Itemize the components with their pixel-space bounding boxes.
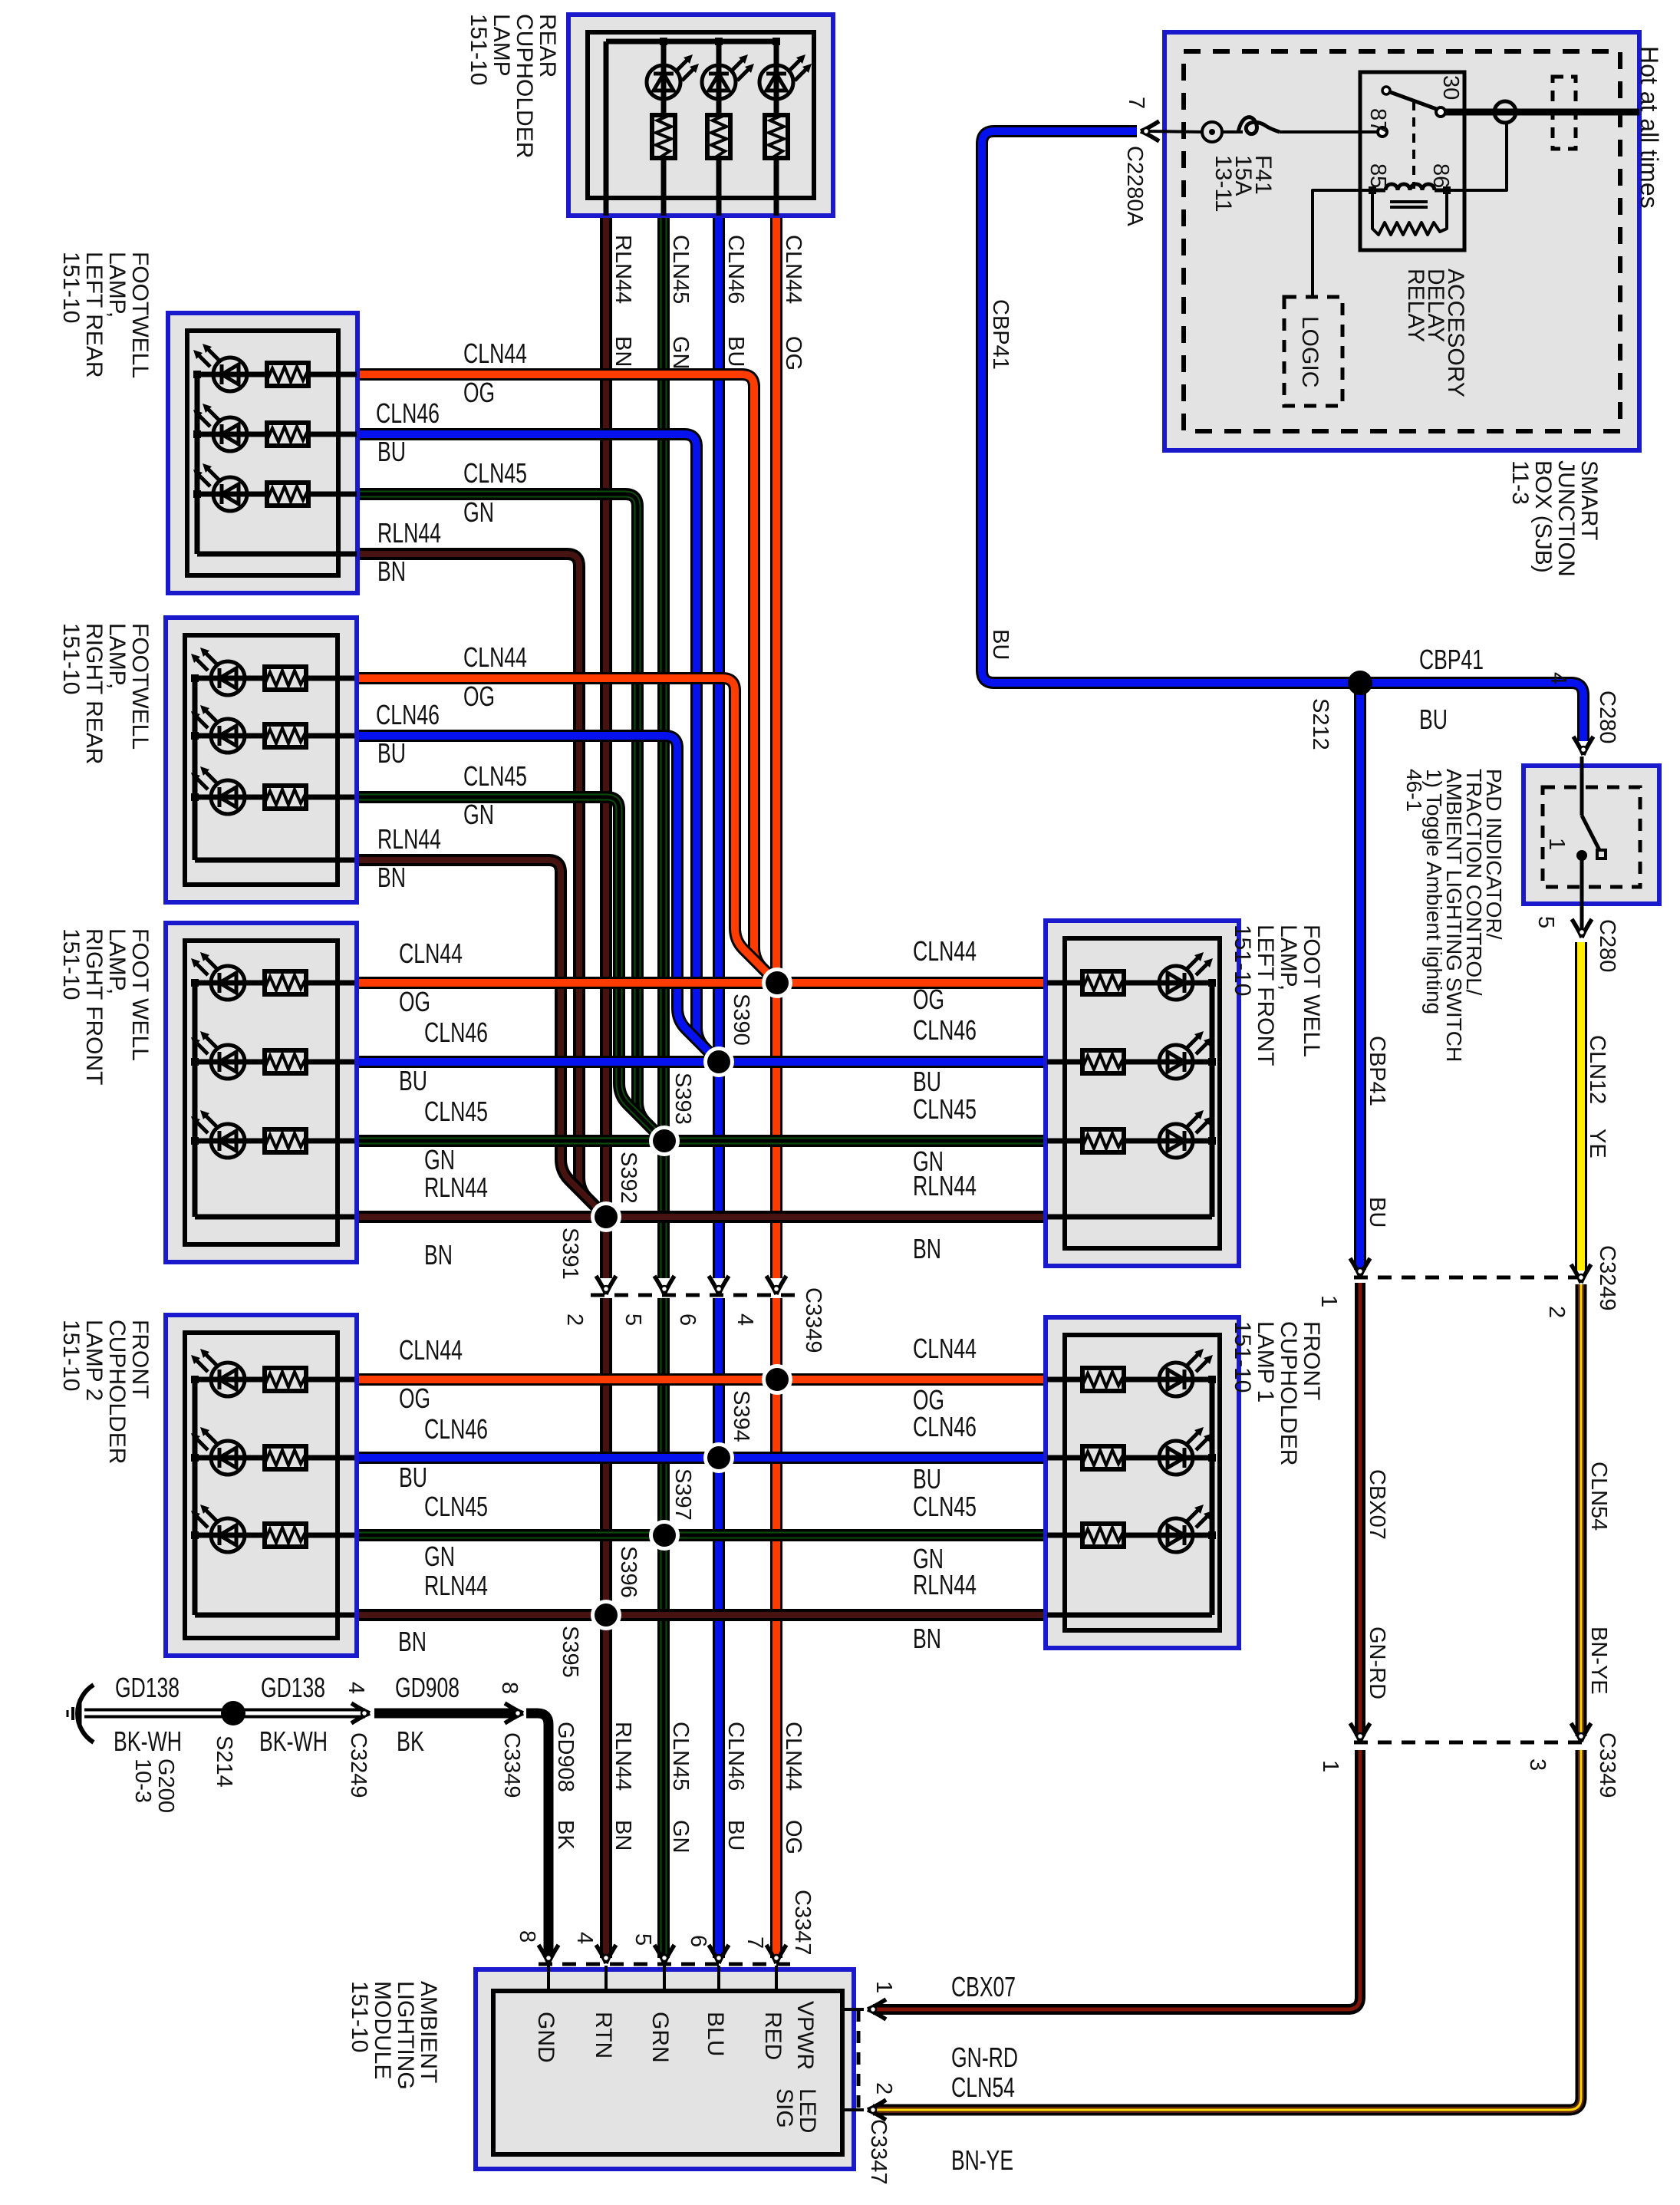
footwell right rear internal LED circuits <box>193 678 198 860</box>
wire C2280A to fuse F41 <box>1146 131 1202 132</box>
svg-text:CLN44: CLN44 <box>781 1722 805 1791</box>
svg-text:S390: S390 <box>729 994 753 1046</box>
svg-text:CLN46: CLN46 <box>376 699 440 730</box>
wire CLN45 GN from footwell lamp right rear to S392 <box>354 797 664 1141</box>
svg-text:CBX07: CBX07 <box>1365 1469 1389 1540</box>
svg-text:RLN44: RLN44 <box>913 1170 977 1201</box>
svg-text:CBP41: CBP41 <box>1419 644 1484 675</box>
svg-text:GN-RD: GN-RD <box>1365 1627 1389 1699</box>
relay actuating link (dashed) <box>1412 101 1415 189</box>
lamp FRONT CUPHOLDER LAMP 2 151-10 housing <box>166 1315 357 1656</box>
svg-text:2: 2 <box>562 1313 587 1326</box>
svg-text:BU: BU <box>399 1462 427 1493</box>
svg-text:GD138: GD138 <box>261 1672 325 1703</box>
svg-text:BU: BU <box>1419 704 1448 735</box>
connector C3347 arrow at x=715 <box>539 1945 558 1963</box>
svg-text:S212: S212 <box>1308 698 1332 750</box>
svg-text:RLN44: RLN44 <box>913 1569 977 1600</box>
svg-text:OG: OG <box>399 986 430 1017</box>
SJB feed tap circle <box>1494 101 1516 123</box>
svg-text:CLN46: CLN46 <box>376 397 440 429</box>
svg-text:5: 5 <box>631 1933 655 1946</box>
svg-text:OG: OG <box>781 1820 805 1854</box>
svg-text:CLN45: CLN45 <box>463 760 527 792</box>
svg-text:Hot at all times: Hot at all times <box>1636 46 1663 209</box>
svg-text:LAMP 2: LAMP 2 <box>81 1320 107 1401</box>
svg-text:C3349: C3349 <box>1595 1732 1619 1798</box>
svg-text:S392: S392 <box>616 1152 641 1204</box>
svg-text:CUPHOLDER: CUPHOLDER <box>1276 1321 1301 1465</box>
svg-text:151-10: 151-10 <box>1230 1321 1255 1393</box>
svg-text:BN: BN <box>377 862 406 893</box>
wire CLN46 BU main vertical (rear cupholder to C3349) <box>713 213 725 1278</box>
connector C3349 arrow on CBX07 <box>1350 1723 1370 1742</box>
svg-text:GN: GN <box>668 336 693 370</box>
svg-text:CLN44: CLN44 <box>463 338 527 369</box>
svg-text:S396: S396 <box>616 1546 641 1598</box>
LOGIC box <box>1284 297 1342 406</box>
svg-text:LAMP,: LAMP, <box>104 928 130 994</box>
fuse F41 15A element <box>1238 117 1280 134</box>
svg-text:LEFT FRONT: LEFT FRONT <box>1253 925 1278 1066</box>
svg-text:S395: S395 <box>558 1626 582 1678</box>
wire CLN44 OG row between front cupholder lamps <box>354 1373 1049 1386</box>
rear cupholder lamp internal LED circuits <box>606 39 776 44</box>
connector C3347 dashed row at module <box>539 1963 790 1966</box>
svg-text:85: 85 <box>1365 163 1390 188</box>
svg-text:JUNCTION: JUNCTION <box>1553 460 1579 577</box>
svg-text:BN: BN <box>611 336 635 367</box>
svg-text:151-10: 151-10 <box>466 14 491 85</box>
connector C3349 dashed row (middle) <box>591 1294 796 1297</box>
svg-text:BK: BK <box>397 1725 424 1757</box>
svg-text:GN: GN <box>463 799 494 830</box>
wire CLN45 GN row between front cupholder lamps <box>354 1529 1049 1541</box>
svg-text:4: 4 <box>344 1682 368 1694</box>
svg-text:GD908: GD908 <box>553 1722 578 1792</box>
svg-text:CLN46: CLN46 <box>424 1017 488 1048</box>
lamp REAR CUPHOLDER LAMP 151-10 housing <box>568 15 833 216</box>
svg-text:C3349: C3349 <box>499 1732 524 1798</box>
svg-text:SIG: SIG <box>772 2088 797 2128</box>
svg-text:CLN45: CLN45 <box>668 235 693 304</box>
svg-text:CLN44: CLN44 <box>463 641 527 673</box>
svg-text:4: 4 <box>572 1932 597 1944</box>
svg-text:87: 87 <box>1365 108 1390 133</box>
connector C3347 arrow at x=866 <box>654 1945 674 1963</box>
svg-text:FOOTWELL: FOOTWELL <box>127 623 153 750</box>
svg-text:RELAY: RELAY <box>1403 269 1428 342</box>
svg-text:2: 2 <box>871 2082 896 2095</box>
svg-text:CLN45: CLN45 <box>463 457 527 489</box>
svg-text:BN: BN <box>611 1820 635 1851</box>
svg-text:C280: C280 <box>1595 691 1619 743</box>
svg-text:LAMP,: LAMP, <box>1276 925 1301 990</box>
svg-text:7: 7 <box>1124 97 1148 109</box>
svg-text:G200: G200 <box>153 1758 178 1813</box>
svg-text:FRONT: FRONT <box>127 1320 153 1399</box>
svg-text:S394: S394 <box>729 1390 753 1442</box>
svg-text:BK: BK <box>553 1820 578 1850</box>
connector C3349 arrow on CLN54 <box>1571 1723 1591 1742</box>
wire CLN44 OG row between foot well front lamps <box>354 977 1049 989</box>
wire CLN46 BU from footwell lamp left rear to S393 <box>354 434 719 1062</box>
svg-text:SMART: SMART <box>1576 460 1602 540</box>
svg-text:LOGIC: LOGIC <box>1297 316 1323 387</box>
svg-text:GN: GN <box>463 496 494 528</box>
svg-text:BU: BU <box>723 1820 748 1851</box>
relay coil suppression resistor <box>1372 190 1447 235</box>
connector C280 pin 4 arrow <box>1573 737 1593 755</box>
wire relay pin 85 to LOGIC <box>1313 190 1372 297</box>
wire GD138 BK-WH from S214 to C3249 pin 4 <box>233 1709 365 1719</box>
wire CLN46 BU main vertical (C3349 to ambient lighting module) <box>713 1298 725 1958</box>
svg-text:LAMP,: LAMP, <box>104 623 130 689</box>
svg-text:CLN46: CLN46 <box>424 1413 488 1445</box>
svg-text:BU: BU <box>399 1065 427 1096</box>
junction S394 <box>762 1364 792 1395</box>
svg-text:CLN54: CLN54 <box>951 2072 1015 2103</box>
connector C3349 arrow on ground run <box>505 1703 523 1723</box>
wire CLN44 OG main vertical (rear cupholder to C3349) <box>770 213 782 1278</box>
junction S397 <box>703 1442 734 1473</box>
svg-text:BN: BN <box>424 1239 453 1271</box>
svg-text:CLN45: CLN45 <box>668 1722 693 1791</box>
svg-text:151-10: 151-10 <box>58 252 84 323</box>
svg-text:151-10: 151-10 <box>58 928 84 1000</box>
connector C2280A pin 7 arrow <box>1141 121 1159 141</box>
svg-text:AMBIENT: AMBIENT <box>416 1981 441 2083</box>
module VPWR pin stub <box>842 2008 864 2011</box>
svg-text:RED: RED <box>760 2012 786 2060</box>
svg-text:CLN44: CLN44 <box>399 1334 463 1366</box>
svg-text:GN: GN <box>668 1820 693 1854</box>
svg-text:86: 86 <box>1428 163 1453 188</box>
wire RLN44 BN main vertical (rear cupholder to C3349) <box>600 213 612 1278</box>
box PAD INDICATOR / TRACTION CONTROL / AMBIENT LIGHTING SWITCH 46-1 <box>1524 766 1659 904</box>
svg-text:CLN54: CLN54 <box>1586 1462 1611 1531</box>
svg-text:C3349: C3349 <box>801 1287 825 1353</box>
ambient lighting toggle switch pole and blade <box>1580 756 1584 816</box>
junction S392 <box>649 1126 680 1156</box>
svg-text:3: 3 <box>1525 1758 1550 1771</box>
svg-text:FOOTWELL: FOOTWELL <box>127 252 153 378</box>
relay pin 30 contact <box>1436 107 1445 117</box>
svg-text:C3249: C3249 <box>1595 1245 1619 1310</box>
svg-text:GRN: GRN <box>647 2012 673 2063</box>
svg-text:1: 1 <box>1318 1760 1342 1772</box>
wire CLN45 GN from footwell lamp left rear to S392 <box>354 494 664 1141</box>
svg-text:BK-WH: BK-WH <box>259 1725 328 1757</box>
foot well right front internal LED circuits <box>193 983 198 1217</box>
front cupholder lamp 1 internal LED circuits <box>1210 1379 1215 1615</box>
connector C3347 dashed link (right side pins 1-2) <box>857 2009 861 2110</box>
wire CLN44 OG main vertical (C3349 to ambient lighting module) <box>770 1298 782 1958</box>
svg-text:BU: BU <box>913 1066 941 1097</box>
svg-text:1: 1 <box>1316 1295 1341 1307</box>
svg-text:OG: OG <box>399 1383 430 1414</box>
lamp FOOTWELL LAMP LEFT REAR 151-10 housing <box>168 313 357 593</box>
connector C3249 arrow on ground run <box>351 1703 370 1723</box>
svg-text:C2280A: C2280A <box>1122 146 1147 226</box>
wire CLN44 OG from footwell lamp left rear to S390 <box>354 374 777 983</box>
svg-text:BU: BU <box>988 629 1013 660</box>
svg-text:BU: BU <box>377 737 406 769</box>
front cupholder lamp 2 internal LED circuits <box>193 1379 198 1615</box>
svg-text:C3249: C3249 <box>346 1732 371 1798</box>
svg-text:BU: BU <box>377 436 406 467</box>
wire CLN12 YE from switch C280 pin 5 to C3249 <box>1575 942 1587 1271</box>
wire GD908 BK from C3349 to ambient lighting module GND <box>526 1713 548 1958</box>
svg-text:RLN44: RLN44 <box>377 823 441 855</box>
svg-text:FOOT WELL: FOOT WELL <box>1299 925 1324 1057</box>
junction S214 <box>221 1701 245 1725</box>
wire CLN54 BN-YE from C3249 down through C3349 to ambient lighting module LED SIG <box>1576 1284 1587 1736</box>
svg-text:CLN46: CLN46 <box>723 235 748 304</box>
wire CLN46 BU row between foot well front lamps <box>354 1056 1049 1068</box>
connector C3349 dashed row (right side) <box>1354 1741 1586 1745</box>
svg-text:S214: S214 <box>212 1735 236 1788</box>
svg-text:CLN44: CLN44 <box>781 235 805 304</box>
svg-text:5: 5 <box>1533 916 1558 928</box>
svg-text:CBP41: CBP41 <box>988 299 1013 370</box>
wire CLN44 OG from footwell lamp right rear to S390 <box>354 678 777 983</box>
connector C3347 arrow at LED SIG <box>868 2100 886 2120</box>
relay switch blade 30-87 <box>1390 92 1438 110</box>
wire fuse F41 to relay pin 87 <box>1280 130 1378 133</box>
svg-text:CBP41: CBP41 <box>1365 1036 1389 1106</box>
svg-text:CUPHOLDER: CUPHOLDER <box>512 14 537 158</box>
wire relay pin 86 to feed tap <box>1447 124 1507 190</box>
wire battery feed inside SJB (hot at all times) <box>1441 109 1639 116</box>
svg-text:OG: OG <box>781 336 805 371</box>
svg-text:GND: GND <box>533 2012 558 2063</box>
svg-text:C280: C280 <box>1595 919 1619 972</box>
svg-text:5: 5 <box>621 1313 645 1326</box>
svg-text:CLN46: CLN46 <box>913 1014 977 1046</box>
svg-text:RIGHT REAR: RIGHT REAR <box>81 623 107 764</box>
lamp FOOT WELL LAMP RIGHT FRONT 151-10 housing <box>166 923 357 1262</box>
svg-text:FOOT WELL: FOOT WELL <box>127 928 153 1061</box>
svg-text:46-1: 46-1 <box>1402 769 1426 812</box>
svg-text:CLN44: CLN44 <box>399 938 463 969</box>
svg-text:MODULE: MODULE <box>370 1981 395 2079</box>
svg-text:S397: S397 <box>670 1468 695 1521</box>
svg-text:LAMP 1: LAMP 1 <box>1253 1321 1278 1402</box>
svg-text:BOX (SJB): BOX (SJB) <box>1530 460 1556 573</box>
junction S396 <box>649 1520 680 1551</box>
svg-text:RLN44: RLN44 <box>424 1172 488 1203</box>
svg-text:BN: BN <box>398 1626 427 1657</box>
svg-text:LIGHTING: LIGHTING <box>393 1981 418 2090</box>
connector C3249 dashed row (right side) <box>1354 1276 1586 1280</box>
wire RLN44 BN from footwell lamp right rear to S391 <box>354 860 606 1217</box>
connector C3249 arrow on CBP41 <box>1350 1258 1370 1277</box>
svg-text:BN-YE: BN-YE <box>951 2144 1013 2176</box>
svg-text:CBX07: CBX07 <box>951 1971 1016 2002</box>
module LED SIG pin stub <box>842 2108 864 2111</box>
svg-text:RIGHT FRONT: RIGHT FRONT <box>81 928 107 1085</box>
connector C3349 arrow at x=866 <box>654 1276 674 1294</box>
svg-text:BU: BU <box>913 1463 941 1495</box>
wire CBP41 BU branch from S212 down to C3249 <box>1354 683 1366 1270</box>
wire CBX07 GN-RD from C3249 down through C3349 to ambient lighting module VPWR <box>1355 1283 1365 1736</box>
svg-text:2: 2 <box>1544 1306 1569 1318</box>
svg-text:BN: BN <box>913 1623 941 1654</box>
svg-text:S393: S393 <box>670 1073 695 1125</box>
svg-text:FRONT: FRONT <box>1299 1321 1324 1400</box>
svg-text:BU: BU <box>1365 1197 1389 1228</box>
connector C3349 arrow at x=937 <box>709 1276 729 1294</box>
box AMBIENT LIGHTING MODULE 151-10 <box>476 1969 854 2169</box>
svg-text:CLN46: CLN46 <box>913 1411 977 1442</box>
svg-text:RLN44: RLN44 <box>611 235 635 304</box>
svg-text:GN: GN <box>424 1144 455 1175</box>
svg-text:RLN44: RLN44 <box>377 517 441 549</box>
lamp FRONT CUPHOLDER LAMP 1 151-10 housing <box>1046 1317 1239 1648</box>
svg-text:BK-WH: BK-WH <box>114 1725 182 1757</box>
svg-text:151-10: 151-10 <box>347 1981 372 2052</box>
wire GD138 BK-WH from G200 to S214 <box>84 1709 233 1719</box>
junction S393 <box>703 1046 734 1077</box>
svg-text:REAR: REAR <box>535 14 560 77</box>
svg-text:LAMP: LAMP <box>489 14 514 77</box>
junction S391 <box>591 1201 621 1232</box>
wire RLN44 BN row between front cupholder lamps <box>354 1609 1049 1621</box>
svg-text:GN-RD: GN-RD <box>951 2042 1018 2073</box>
svg-text:OG: OG <box>463 377 495 408</box>
svg-text:BU: BU <box>723 336 748 367</box>
svg-text:CLN45: CLN45 <box>424 1491 488 1522</box>
svg-text:CLN44: CLN44 <box>913 1333 977 1364</box>
svg-text:CLN46: CLN46 <box>723 1722 748 1791</box>
svg-text:11-3: 11-3 <box>1507 460 1533 505</box>
footwell left rear internal LED circuits <box>195 374 200 554</box>
svg-text:6: 6 <box>675 1313 700 1326</box>
wire CBP41 BU from SJB C2280A pin 7 through S212 to switch C280 pin 4 <box>982 131 1583 741</box>
svg-text:10-3: 10-3 <box>130 1758 155 1803</box>
svg-text:CLN45: CLN45 <box>913 1491 977 1522</box>
svg-text:GN: GN <box>424 1541 455 1572</box>
svg-text:GD138: GD138 <box>115 1672 180 1703</box>
wire GD908 BK from C3249 to C3349 pin 8 <box>374 1709 517 1719</box>
svg-text:13-11: 13-11 <box>1211 155 1236 213</box>
svg-text:RLN44: RLN44 <box>611 1722 635 1791</box>
wire CLN46 BU row between front cupholder lamps <box>354 1452 1049 1464</box>
relay ACCESSORY DELAY RELAY box <box>1360 72 1464 250</box>
relay pin 87 contact <box>1378 127 1387 137</box>
junction S395 <box>591 1600 621 1630</box>
connector C280 pin 5 arrow <box>1572 919 1592 938</box>
svg-text:BN: BN <box>913 1233 941 1264</box>
svg-text:VPWR: VPWR <box>792 2001 818 2070</box>
lamp FOOTWELL LAMP RIGHT REAR 151-10 housing <box>166 618 357 902</box>
svg-text:1: 1 <box>871 1981 896 1993</box>
wire CLN45 GN main vertical (rear cupholder to C3349) <box>657 213 670 1278</box>
wire RLN44 BN from footwell lamp left rear to S391 <box>354 554 606 1217</box>
svg-text:C3347: C3347 <box>866 2119 891 2184</box>
svg-text:1: 1 <box>1544 838 1569 850</box>
svg-text:4: 4 <box>733 1313 757 1326</box>
svg-text:BN: BN <box>377 555 406 587</box>
svg-text:YE: YE <box>1585 1129 1609 1159</box>
module pin stubs into housing <box>547 1966 550 1992</box>
svg-text:LAMP,: LAMP, <box>104 252 130 318</box>
lamp FOOT WELL LAMP LEFT FRONT 151-10 housing <box>1046 921 1239 1266</box>
wire RLN44 BN main vertical (C3349 to ambient lighting module) <box>600 1298 612 1958</box>
svg-text:151-10: 151-10 <box>1230 925 1255 996</box>
box SMART JUNCTION BOX (SJB) 11-3 <box>1164 32 1639 450</box>
svg-text:CLN45: CLN45 <box>424 1096 488 1127</box>
svg-text:30: 30 <box>1438 75 1463 100</box>
svg-text:S391: S391 <box>558 1228 582 1280</box>
svg-text:CLN45: CLN45 <box>913 1093 977 1125</box>
svg-text:4: 4 <box>1546 672 1570 684</box>
foot well left front internal LED circuits <box>1210 983 1215 1217</box>
svg-text:7: 7 <box>743 1936 767 1949</box>
wire CLN45 GN main vertical (C3349 to ambient lighting module) <box>657 1298 670 1958</box>
svg-text:151-10: 151-10 <box>58 1320 84 1391</box>
svg-text:BN-YE: BN-YE <box>1586 1627 1611 1695</box>
connector C3347 arrow at x=937 <box>709 1945 729 1963</box>
svg-text:RLN44: RLN44 <box>424 1570 488 1601</box>
svg-text:8: 8 <box>497 1682 522 1694</box>
svg-text:CLN44: CLN44 <box>913 935 977 967</box>
svg-text:OG: OG <box>463 681 495 712</box>
svg-text:C3347: C3347 <box>790 1890 815 1955</box>
svg-text:151-10: 151-10 <box>58 623 84 694</box>
connector C3249 arrow on CLN12 <box>1571 1264 1591 1283</box>
connector C3349 arrow at x=1012 <box>766 1276 786 1294</box>
SJB bus bar connector (dashed) <box>1553 77 1576 149</box>
svg-text:OG: OG <box>913 984 944 1015</box>
connector C3347 arrow at VPWR <box>868 1999 886 2019</box>
wire RLN44 BN row between foot well front lamps <box>354 1211 1049 1223</box>
fuse F41 15A terminal <box>1202 122 1222 142</box>
svg-text:RTN: RTN <box>591 2012 616 2058</box>
connector C3349 arrow at x=790 <box>596 1276 616 1294</box>
svg-text:CUPHOLDER: CUPHOLDER <box>104 1320 130 1464</box>
relay coil between pins 85 and 86 <box>1385 184 1435 190</box>
connector C3347 arrow at x=1012 <box>766 1945 786 1963</box>
svg-text:8: 8 <box>515 1930 539 1943</box>
svg-text:LEFT REAR: LEFT REAR <box>81 252 107 378</box>
junction S212 <box>1348 671 1372 695</box>
wire CLN46 BU from footwell lamp right rear to S393 <box>354 736 719 1062</box>
junction S390 <box>762 967 792 998</box>
connector C3347 arrow at x=790 <box>596 1945 616 1963</box>
svg-text:LED: LED <box>795 2088 820 2133</box>
ground G200 10-3 chassis ground symbol <box>68 1685 94 1742</box>
wire CLN45 GN row between foot well front lamps <box>354 1135 1049 1147</box>
svg-text:BLU: BLU <box>703 2012 728 2056</box>
svg-text:GD908: GD908 <box>395 1672 460 1703</box>
svg-text:CLN12: CLN12 <box>1585 1035 1609 1104</box>
svg-text:6: 6 <box>686 1935 710 1947</box>
